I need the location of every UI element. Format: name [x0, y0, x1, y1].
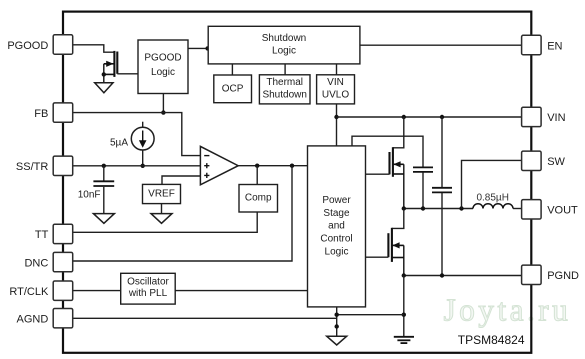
block OCP	[214, 75, 252, 103]
transistor Q3 PGOOD open-drain NMOS	[102, 51, 118, 83]
wire error amp output to Power Stage (COMP node)	[238, 164, 307, 168]
pin PGND	[522, 265, 579, 284]
pin PGOOD	[7, 35, 72, 54]
block PGOOD Logic	[138, 40, 188, 94]
svg-text:SW: SW	[547, 156, 565, 168]
wire SS/TR line to error amp	[73, 164, 200, 168]
svg-text:0.85µH: 0.85µH	[476, 192, 508, 203]
wire PGOOD Logic to FB node	[161, 94, 165, 115]
wire VIN rail to VIN pin	[337, 115, 522, 119]
svg-text:Stage: Stage	[323, 208, 350, 219]
capacitor C2 input cap VIN to PGND	[432, 117, 452, 276]
block Power Stage and Control Logic	[308, 146, 366, 307]
IC package outline	[63, 12, 531, 353]
transistor Q2 low-side NMOS	[388, 209, 403, 276]
wire PGND line	[402, 273, 522, 277]
svg-text:RT/CLK: RT/CLK	[9, 286, 49, 298]
pin VOUT	[522, 200, 578, 219]
svg-text:DNC: DNC	[24, 257, 48, 269]
svg-text:VIN: VIN	[327, 77, 344, 88]
wire Power Stage bottom to analog ground	[335, 307, 339, 336]
svg-text:TT: TT	[35, 229, 49, 241]
block Comp	[239, 185, 278, 213]
ground G3 triangle under Q3	[95, 83, 113, 93]
svg-text:VOUT: VOUT	[547, 205, 578, 217]
pin SW	[522, 151, 566, 170]
wire DNC pin to COMP node	[73, 166, 292, 261]
pin SS/TR	[16, 156, 73, 175]
wire RT/CLK pin to oscillator	[73, 290, 121, 292]
svg-text:Power: Power	[322, 195, 351, 206]
wire VIN UVLO down to VIN node and Power Stage	[334, 104, 338, 146]
svg-text:Logic: Logic	[151, 67, 175, 78]
svg-text:Shutdown: Shutdown	[262, 33, 306, 44]
wire Q1 gate to Power Stage	[366, 173, 390, 175]
wire oscillator to Power Stage	[175, 290, 307, 292]
svg-text:10nF: 10nF	[78, 189, 101, 200]
wire SW pin connection	[462, 160, 522, 208]
block Oscillator with PLL	[121, 273, 176, 304]
capacitor C3 10nF	[78, 166, 114, 214]
svg-text:PGOOD: PGOOD	[7, 40, 48, 52]
svg-text:VIN: VIN	[547, 112, 565, 124]
capacitor C1 bootstrap	[413, 167, 433, 208]
pin FB	[34, 103, 72, 122]
ground G5 triangle under VREF	[151, 204, 172, 224]
pin EN	[522, 35, 563, 54]
svg-text:and: and	[328, 221, 345, 232]
wire power ground rail vertical	[402, 276, 406, 337]
block VIN UVLO	[317, 75, 355, 104]
op-amp U1 error amplifier	[200, 146, 238, 184]
svg-text:with PLL: with PLL	[128, 288, 168, 299]
wire PGOOD Logic to Shutdown Logic, junction at box edge	[188, 46, 210, 50]
svg-text:UVLO: UVLO	[322, 89, 349, 100]
ground G4 triangle under C3	[93, 214, 114, 224]
current source I1 5uA	[110, 122, 154, 168]
svg-text:Oscillator: Oscillator	[127, 277, 169, 288]
wire Q2 gate to Power Stage	[366, 256, 389, 258]
wire AGND pin line	[73, 317, 337, 319]
wire FB pin to error amp inverting input	[73, 113, 200, 156]
pin DNC	[24, 252, 72, 271]
svg-text:AGND: AGND	[17, 314, 49, 326]
block Thermal Shutdown	[259, 75, 310, 104]
svg-text:Control: Control	[320, 234, 352, 245]
ground G1 triangle under Power Stage	[327, 336, 347, 345]
svg-text:PGND: PGND	[547, 270, 579, 282]
svg-text:PGOOD: PGOOD	[144, 53, 181, 64]
svg-text:Shutdown: Shutdown	[262, 89, 306, 100]
pin RT/CLK	[9, 281, 72, 300]
wire bootstrap from Power Stage to C1	[352, 136, 423, 167]
wire SW node line with junctions	[402, 206, 473, 210]
svg-text:Logic: Logic	[325, 246, 349, 257]
wire ground interconnect AGND to PGND	[337, 314, 404, 316]
wire Shutdown Logic to OCP	[231, 64, 233, 75]
wire Shutdown Logic to EN pin	[360, 44, 522, 46]
svg-text:VREF: VREF	[148, 189, 175, 200]
svg-text:OCP: OCP	[222, 84, 244, 95]
wire Q3 gate to PGOOD Logic	[117, 73, 138, 75]
wire VREF to error amp noninverting input	[162, 176, 200, 184]
svg-text:Logic: Logic	[272, 46, 296, 57]
svg-text:SS/TR: SS/TR	[16, 161, 48, 173]
svg-text:Comp: Comp	[245, 193, 272, 204]
transistor Q1 high-side NMOS	[390, 117, 404, 209]
svg-text:5µA: 5µA	[110, 138, 128, 149]
inductor L1 0.85uH	[473, 192, 522, 208]
block Shutdown Logic	[208, 26, 360, 64]
svg-text:Thermal: Thermal	[266, 77, 303, 88]
wire COMP node to Comp block	[256, 166, 258, 185]
pin VIN	[522, 107, 566, 126]
wire PGOOD pin to Q3 drain	[73, 45, 114, 52]
block VREF	[143, 184, 181, 203]
wire Shutdown Logic to VIN UVLO	[336, 64, 338, 75]
svg-text:TPSM84824: TPSM84824	[458, 333, 525, 347]
svg-text:FB: FB	[34, 108, 48, 120]
wire Shutdown Logic to Thermal Shutdown	[284, 64, 286, 75]
pin AGND	[17, 309, 73, 328]
wire Comp block to TT pin	[73, 212, 257, 232]
svg-text:EN: EN	[547, 40, 562, 52]
svg-text:Joyta.ru: Joyta.ru	[444, 293, 572, 328]
pin TT	[35, 224, 73, 243]
ground G2 earth symbol	[394, 337, 414, 343]
